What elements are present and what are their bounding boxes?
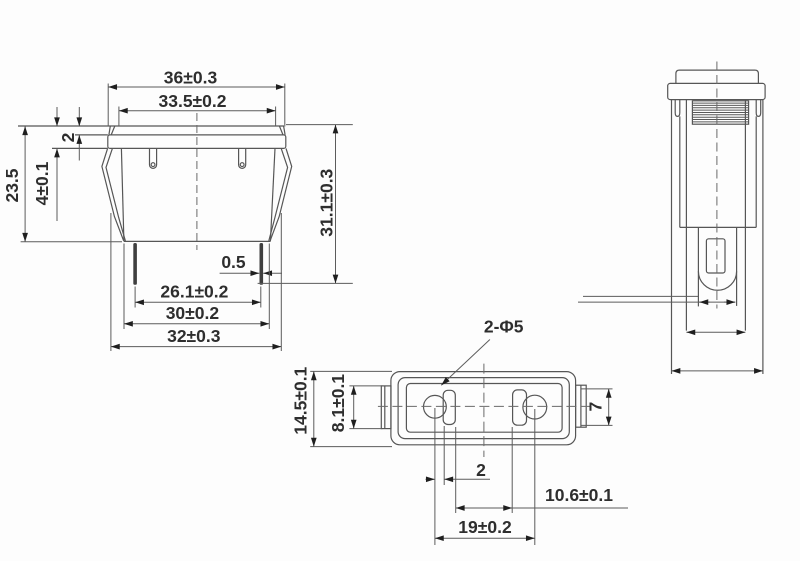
svg-text:23.5: 23.5 [2, 168, 22, 202]
svg-text:2: 2 [476, 460, 486, 480]
svg-text:10.6±0.1: 10.6±0.1 [545, 485, 613, 505]
svg-text:2: 2 [58, 132, 78, 142]
svg-text:36±0.3: 36±0.3 [164, 67, 218, 87]
svg-text:19±0.2: 19±0.2 [458, 517, 512, 537]
svg-text:26.1±0.2: 26.1±0.2 [160, 282, 228, 302]
svg-text:2-Φ5: 2-Φ5 [484, 317, 524, 337]
svg-text:32±0.3: 32±0.3 [167, 326, 221, 346]
svg-text:4±0.1: 4±0.1 [32, 161, 52, 205]
svg-text:7: 7 [586, 402, 606, 412]
svg-text:31.1±0.3: 31.1±0.3 [317, 168, 337, 236]
svg-text:33.5±0.2: 33.5±0.2 [159, 91, 227, 111]
svg-text:14.5±0.1: 14.5±0.1 [291, 366, 311, 434]
svg-text:30±0.2: 30±0.2 [166, 303, 220, 323]
svg-text:0.5: 0.5 [221, 252, 246, 272]
svg-text:8.1±0.1: 8.1±0.1 [328, 374, 348, 433]
